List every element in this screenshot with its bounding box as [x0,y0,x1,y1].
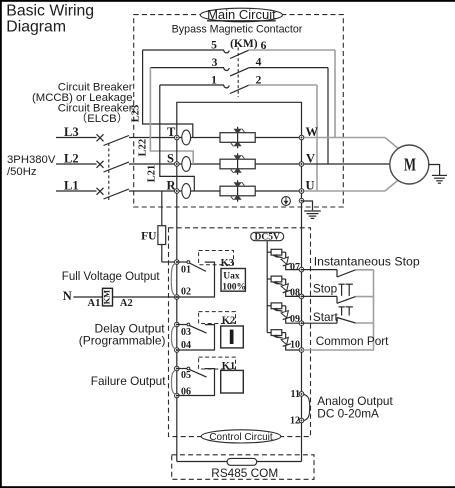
svg-text:L1: L1 [64,178,79,192]
contactor KM contact 5-6 [143,50,335,59]
svg-text:S: S [167,151,174,165]
cable arc 01-02 [171,263,175,295]
svg-text:FU: FU [141,231,157,243]
svg-text:L21: L21 [147,165,158,183]
fuse FU [141,191,166,262]
DC5V bus wire [266,241,268,332]
bypass loop L21 (contact1 to R row) [147,85,195,191]
svg-text:K2: K2 [222,315,235,326]
bypass loop L22 (contact3 to S row) [138,68,194,164]
CT ellipse S row [182,157,191,172]
svg-text:L2: L2 [64,151,79,165]
S row wire [129,163,302,165]
inner ground by U [302,201,321,218]
svg-text:Bypass Magnetic Contactor: Bypass Magnetic Contactor [172,24,303,36]
svg-text:09: 09 [290,314,300,325]
svg-text:Start: Start [313,310,339,324]
wire contact4 to V row [327,68,329,164]
thyristor module T-W [220,127,255,148]
thyristor module S-V [220,153,255,174]
DC5V label pill [251,232,284,242]
start button (09, NO) [302,307,374,323]
svg-text:Instantaneous Stop: Instantaneous Stop [314,255,420,269]
terminal 09 [290,314,304,326]
main circuit dashed enclosure [134,15,344,207]
Uax 100% box [221,269,246,293]
opto input row 07 [267,249,301,269]
K3 dashed label box [199,251,234,270]
thyristor module R-U [220,180,255,201]
CT ellipse R row [182,184,191,199]
V row wire to motor [302,163,390,165]
U row wire to motor [302,180,399,191]
svg-text:（ELCB）: （ELCB） [76,112,128,125]
svg-text:K3: K3 [221,258,234,269]
wire N to 02 [73,296,176,298]
svg-text:A2: A2 [120,298,133,309]
motor ground [429,165,447,184]
svg-text:Diagram: Diagram [6,18,66,35]
contactor KM contact 1-2 [160,85,317,94]
RS485 dashed enclosure [172,455,314,480]
K1 dashed label box [199,357,236,372]
relay contact K1 (05-06) [177,367,215,395]
svg-text:U: U [306,178,315,192]
terminal below U (earth terminal) [299,198,304,203]
svg-text:M: M [404,155,416,175]
svg-text:L22: L22 [138,139,149,157]
control circuit dashed enclosure [169,228,311,437]
relay contact K3 (01-02) [177,261,215,297]
terminal W [299,125,318,140]
svg-text:11: 11 [291,389,300,400]
wire contact6 to W row [334,50,336,138]
svg-text:4: 4 [256,57,262,69]
svg-text:12: 12 [290,416,300,427]
relay contact K2 (03-04) [177,323,215,350]
svg-text:08: 08 [290,288,300,299]
breaker pole L1 [56,188,129,199]
svg-text:Main Circuit: Main Circuit [207,7,276,22]
terminal 06 [175,387,192,398]
wire T to W over the top [177,102,302,137]
svg-text:W: W [306,125,319,139]
svg-text:05: 05 [181,370,191,381]
svg-text:Control Circuit: Control Circuit [209,432,273,443]
cable arc 03-04 [172,326,176,349]
breaker pole L2 [56,161,129,172]
K2 dashed label box [199,312,236,327]
svg-text:3PH380V: 3PH380V [7,154,56,166]
svg-text:10: 10 [290,339,300,350]
terminal T [167,125,179,140]
terminal 03 [175,322,192,338]
opto input row 09 [267,303,301,323]
svg-text:Stop: Stop [313,282,338,296]
Control Circuit label ellipse [201,430,281,443]
terminal 05 [175,366,192,381]
svg-text:03: 03 [181,327,191,338]
K1 relay box [221,370,244,393]
svg-text:Analog Output: Analog Output [317,394,393,408]
circuit breaker text block [32,82,133,126]
CT ellipse T row [182,130,191,145]
R row wire [129,190,302,192]
terminal 11 [291,389,304,400]
terminal S [167,151,179,166]
svg-text:Basic Wiring: Basic Wiring [6,3,94,20]
svg-text:N: N [63,289,72,303]
svg-text:Common Port: Common Port [316,334,389,348]
opto input row 10 [267,330,301,350]
common bus wire (gray) [302,270,374,350]
svg-text:/50Hz: /50Hz [7,166,37,178]
RS485 link pill [227,458,257,465]
left terminal strip vertical wire [176,138,178,462]
motor M [390,145,429,184]
PE terminal symbol (circle with earth arrow) [282,197,291,206]
opto input row 08 [267,276,301,296]
terminal R [167,178,180,193]
Main Circuit label ellipse [200,7,282,22]
svg-text:Full Voltage Output: Full Voltage Output [62,271,161,283]
K2 timer box [221,326,244,348]
instantaneous stop switch (07) [302,270,374,277]
svg-text:V: V [306,151,315,165]
terminal 02 [175,286,192,299]
contactor KM contact 3-4 [150,68,328,77]
bypass loop L23 (contact5 to T row) [131,50,193,138]
svg-text:07: 07 [290,262,300,273]
page border frame [0,0,455,2]
svg-text:Uax: Uax [223,271,240,281]
wire FU to terminal 01 [162,261,177,263]
svg-text:RS485 COM: RS485 COM [211,466,278,480]
terminal V [299,151,315,166]
svg-text:02: 02 [181,286,191,297]
cable arc 05-06 [172,370,176,394]
terminal 07 [290,262,304,273]
KM coil box [101,288,112,306]
terminal 08 [290,288,304,299]
breaker pole L3 [56,134,129,145]
terminal U [299,178,314,193]
terminal 12 [290,416,304,427]
svg-text:L23: L23 [131,105,142,123]
wire contact2 to U row [316,85,318,191]
svg-text:04: 04 [181,340,191,351]
svg-text:L3: L3 [64,125,79,139]
contactor mechanical linkage (dashed) [237,48,239,98]
svg-text:100%: 100% [222,282,246,292]
title: Basic Wiring Diagram [6,3,94,36]
W row wire to motor [302,138,399,149]
svg-text:A1: A1 [88,298,101,309]
svg-text:DC 0-20mA: DC 0-20mA [317,407,379,421]
svg-text:KM: KM [101,290,111,305]
terminal 04 [175,340,192,352]
svg-text:(Programmable): (Programmable) [79,334,166,348]
svg-text:Failure Output: Failure Output [91,374,166,388]
right terminal strip vertical wire [301,138,303,462]
stop button (08, NC) [302,284,374,303]
RS485 bottom link wire [177,461,302,463]
svg-text:DC5V: DC5V [255,233,280,243]
T row wire [129,137,302,139]
terminal 10 [290,339,304,352]
svg-text:(KM): (KM) [230,38,258,50]
analog output cable arc 11-12 [304,394,310,420]
breaker linkage (dashed) [108,143,110,200]
terminal 01 [175,260,192,276]
svg-text:01: 01 [181,264,191,275]
